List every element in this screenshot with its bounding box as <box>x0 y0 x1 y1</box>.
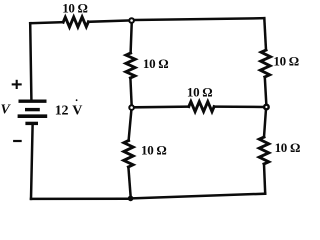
wire mid node D to R4 <box>135 105 189 108</box>
wire R1 to top node B <box>88 21 128 22</box>
resistor R4 (middle horizontal, 10 ohm) <box>189 102 214 112</box>
wire bottom (corner H to junction F) <box>133 194 265 199</box>
svg-text:10 Ω: 10 Ω <box>62 0 87 15</box>
resistor R2 (upper middle, 10 ohm) <box>126 53 135 78</box>
svg-text:10 Ω: 10 Ω <box>273 54 298 69</box>
wire R5 to bottom junction F <box>128 167 130 196</box>
wire top-right corner C down to R3 <box>264 18 266 50</box>
battery plate short <box>25 108 40 111</box>
wire R2 to mid node D <box>130 78 131 104</box>
wire R6 to bottom-right corner H <box>264 164 265 194</box>
svg-text:V: V <box>1 103 12 118</box>
svg-text:10 Ω: 10 Ω <box>187 85 212 100</box>
wire mid node D down to R5 <box>129 111 132 141</box>
node E (middle-right junction, open) <box>264 105 269 110</box>
battery plate short (- bottom) <box>25 122 38 125</box>
wire R4 to mid-right node E <box>214 105 263 108</box>
wire left rail upper (battery plus plate up to corner A) <box>30 23 31 100</box>
wire mid-right node E down to R6 <box>264 110 266 137</box>
node B (top junction, open) <box>129 18 134 23</box>
battery V (12 V source) <box>18 101 48 123</box>
node D (middle-left junction, open) <box>129 105 134 110</box>
plus sign of battery <box>12 80 22 89</box>
svg-text:V: V <box>72 103 82 118</box>
resistor R1 (top, 10 ohm) <box>63 17 88 27</box>
battery plate long <box>18 114 48 118</box>
svg-text:10 Ω: 10 Ω <box>141 143 166 158</box>
node F (bottom junction, filled dot) <box>128 196 134 202</box>
resistor R5 (lower middle, 10 ohm) <box>124 141 134 168</box>
resistor R3 (upper right, 10 ohm) <box>260 50 270 77</box>
wire top-left horizontal (corner A to R1) <box>30 22 63 23</box>
wire bottom (junction F to bottom-left corner G) <box>31 197 128 200</box>
wire left rail lower (corner G up to battery minus plate) <box>31 125 33 199</box>
scan speck above V <box>76 99 78 101</box>
wire top node B down to R2 <box>131 24 132 53</box>
battery plate long (+ top) <box>19 99 47 102</box>
minus sign of battery <box>13 140 22 142</box>
svg-text:10 Ω: 10 Ω <box>143 56 168 71</box>
resistor R6 (lower right, 10 ohm) <box>259 137 269 164</box>
svg-text:10 Ω: 10 Ω <box>275 140 300 155</box>
wire top node B to top-right corner C <box>135 18 265 20</box>
wire R3 to mid-right node E <box>265 77 267 104</box>
svg-text:12: 12 <box>55 103 69 118</box>
